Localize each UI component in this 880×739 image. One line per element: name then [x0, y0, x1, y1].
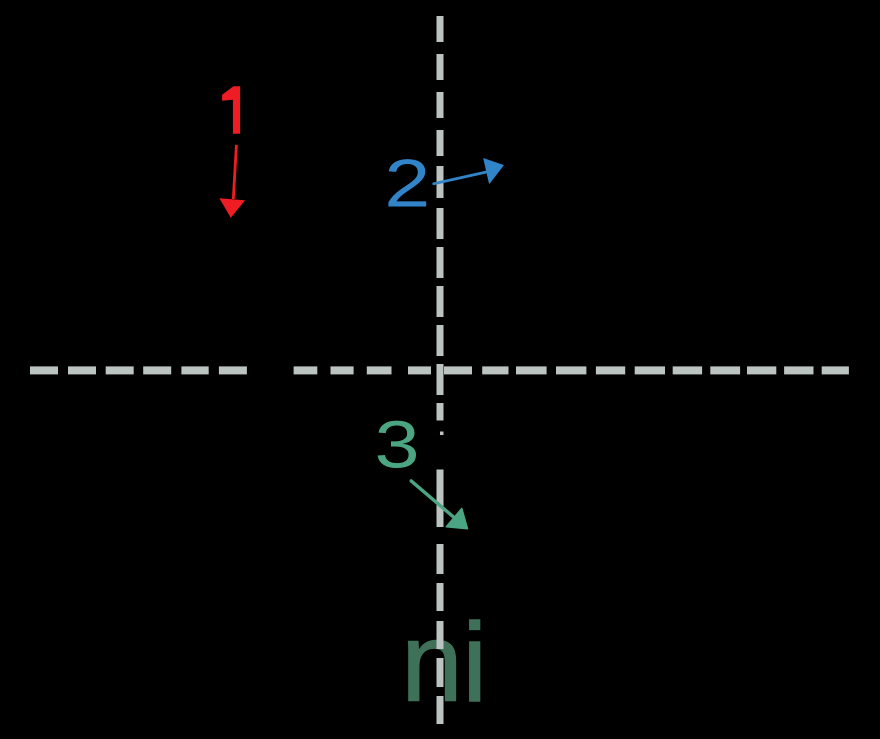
- svg-text:3: 3: [375, 407, 420, 482]
- arrow 1 (red, pointing down): [219, 145, 245, 218]
- dashed vertical axis: [437, 16, 444, 724]
- label 1 (red digit, hand shape: flag + stem, no base serif): [222, 86, 240, 134]
- label ni (dark green text): [401, 601, 487, 725]
- dashed horizontal axis: [30, 366, 849, 374]
- svg-text:2: 2: [384, 145, 430, 221]
- arrow 3 (green, pointing down-right): [411, 481, 467, 529]
- svg-text:ni: ni: [401, 601, 487, 725]
- label 2 (blue digit): [384, 145, 430, 221]
- label 3 (green digit): [375, 407, 420, 482]
- arrow 2 (blue, pointing right-up): [434, 159, 504, 184]
